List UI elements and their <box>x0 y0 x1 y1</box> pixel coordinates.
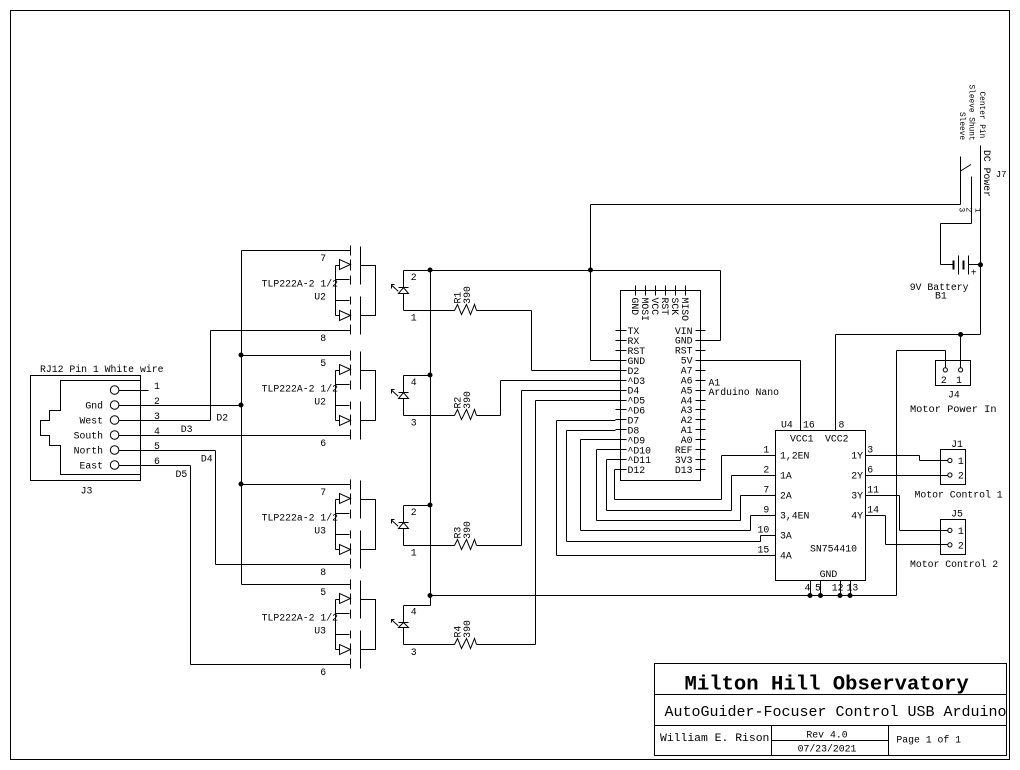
svg-text:GND: GND <box>629 298 640 316</box>
svg-text:VCC1: VCC1 <box>790 434 814 445</box>
svg-text:Sleeve: Sleeve <box>957 112 965 140</box>
svg-text:TLP222a-2 1/2: TLP222a-2 1/2 <box>262 513 339 524</box>
svg-text:D2: D2 <box>216 412 228 423</box>
svg-text:2Y: 2Y <box>851 470 863 481</box>
svg-text:2: 2 <box>958 471 964 482</box>
svg-text:J5: J5 <box>951 509 963 520</box>
svg-text:D12: D12 <box>628 465 646 476</box>
svg-text:MOSI: MOSI <box>639 298 650 322</box>
svg-text:7: 7 <box>320 487 326 498</box>
svg-text:Gnd: Gnd <box>85 400 103 411</box>
svg-text:Motor Control 2: Motor Control 2 <box>910 559 998 570</box>
svg-text:1Y: 1Y <box>851 450 863 461</box>
svg-text:J3: J3 <box>81 486 93 497</box>
svg-text:J7: J7 <box>996 170 1007 180</box>
svg-text:1: 1 <box>958 526 964 537</box>
svg-text:6: 6 <box>320 438 326 449</box>
svg-text:MISO: MISO <box>679 298 690 322</box>
svg-text:7: 7 <box>763 485 769 496</box>
svg-text:1: 1 <box>956 375 962 386</box>
svg-text:J1: J1 <box>951 439 963 450</box>
svg-text:Milton Hill Observatory: Milton Hill Observatory <box>685 674 969 697</box>
svg-text:Center Pin: Center Pin <box>977 92 985 139</box>
svg-text:2: 2 <box>411 272 417 283</box>
svg-text:3: 3 <box>957 208 965 213</box>
svg-text:2: 2 <box>941 375 947 386</box>
svg-text:B1: B1 <box>935 291 947 302</box>
svg-text:South: South <box>74 430 104 441</box>
svg-text:5: 5 <box>320 358 326 369</box>
svg-text:U2: U2 <box>314 396 326 407</box>
svg-text:6: 6 <box>867 465 873 476</box>
svg-text:1: 1 <box>958 456 964 467</box>
svg-text:AutoGuider-Focuser Control USB: AutoGuider-Focuser Control USB Arduino <box>665 704 1007 721</box>
svg-text:D5: D5 <box>176 469 188 480</box>
svg-text:8: 8 <box>839 419 845 430</box>
svg-text:+: + <box>971 267 977 278</box>
svg-text:RST: RST <box>659 298 670 316</box>
svg-text:1: 1 <box>154 381 160 392</box>
svg-text:1: 1 <box>411 548 417 559</box>
svg-text:390: 390 <box>462 620 473 638</box>
svg-text:U3: U3 <box>314 525 326 536</box>
svg-text:3: 3 <box>411 418 417 429</box>
svg-text:2: 2 <box>958 540 964 551</box>
svg-text:07/23/2021: 07/23/2021 <box>798 744 857 755</box>
svg-text:15: 15 <box>758 545 770 556</box>
svg-text:6: 6 <box>320 667 326 678</box>
svg-text:2A: 2A <box>780 490 792 501</box>
svg-text:8: 8 <box>320 567 326 578</box>
svg-text:North: North <box>74 445 104 456</box>
svg-text:14: 14 <box>867 505 879 516</box>
svg-text:11: 11 <box>867 485 879 496</box>
svg-text:VCC: VCC <box>649 298 660 316</box>
svg-text:D4: D4 <box>201 453 213 464</box>
svg-text:9: 9 <box>763 505 769 516</box>
svg-text:3,4EN: 3,4EN <box>780 510 810 521</box>
svg-text:TLP222A-2 1/2: TLP222A-2 1/2 <box>262 613 339 624</box>
svg-text:16: 16 <box>803 419 815 430</box>
svg-text:TLP222A-2 1/2: TLP222A-2 1/2 <box>262 279 339 290</box>
svg-text:10: 10 <box>758 525 770 536</box>
svg-text:U4: U4 <box>781 419 793 430</box>
svg-text:3A: 3A <box>780 530 792 541</box>
svg-text:West: West <box>79 415 103 426</box>
svg-text:13: 13 <box>847 583 859 594</box>
svg-text:Motor Power In: Motor Power In <box>910 404 997 416</box>
svg-text:D3: D3 <box>181 424 193 435</box>
svg-text:390: 390 <box>462 521 473 539</box>
svg-text:U2: U2 <box>314 291 326 302</box>
svg-text:5: 5 <box>320 587 326 598</box>
svg-text:2: 2 <box>411 507 417 518</box>
svg-text:J4: J4 <box>948 390 960 401</box>
svg-text:1: 1 <box>973 208 981 213</box>
svg-text:TLP222A-2 1/2: TLP222A-2 1/2 <box>262 384 339 395</box>
svg-text:SCK: SCK <box>669 298 680 316</box>
svg-text:SN754410: SN754410 <box>810 544 857 555</box>
svg-text:5: 5 <box>815 583 821 594</box>
svg-text:William E. Rison: William E. Rison <box>660 733 769 745</box>
svg-text:12: 12 <box>832 583 844 594</box>
svg-text:GND: GND <box>820 569 838 580</box>
svg-text:1: 1 <box>763 445 769 456</box>
svg-text:3Y: 3Y <box>851 490 863 501</box>
svg-text:DC Power: DC Power <box>981 150 992 197</box>
svg-text:4: 4 <box>411 377 417 388</box>
svg-text:Arduino Nano: Arduino Nano <box>709 387 780 398</box>
svg-text:4: 4 <box>411 607 417 618</box>
svg-text:D13: D13 <box>675 465 693 476</box>
svg-text:1: 1 <box>411 313 417 324</box>
svg-text:VCC2: VCC2 <box>825 434 849 445</box>
svg-text:RJ12 Pin 1 White wire: RJ12 Pin 1 White wire <box>40 364 164 375</box>
svg-text:4A: 4A <box>780 550 792 561</box>
svg-text:Sleeve Shunt: Sleeve Shunt <box>967 85 975 141</box>
svg-text:8: 8 <box>320 333 326 344</box>
svg-text:Rev 4.0: Rev 4.0 <box>806 730 847 741</box>
svg-text:4Y: 4Y <box>851 510 863 521</box>
svg-text:1A: 1A <box>780 470 792 481</box>
svg-text:U3: U3 <box>314 625 326 636</box>
svg-text:2: 2 <box>763 465 769 476</box>
svg-text:390: 390 <box>462 286 473 304</box>
svg-text:Motor Control 1: Motor Control 1 <box>915 490 1003 501</box>
svg-text:3: 3 <box>411 647 417 658</box>
svg-text:4: 4 <box>805 583 811 594</box>
svg-text:East: East <box>79 460 103 471</box>
svg-text:390: 390 <box>462 391 473 409</box>
svg-text:1,2EN: 1,2EN <box>780 450 810 461</box>
svg-text:7: 7 <box>320 253 326 264</box>
svg-text:3: 3 <box>867 445 873 456</box>
svg-text:2: 2 <box>964 208 972 213</box>
svg-text:Page 1 of 1: Page 1 of 1 <box>896 735 961 746</box>
